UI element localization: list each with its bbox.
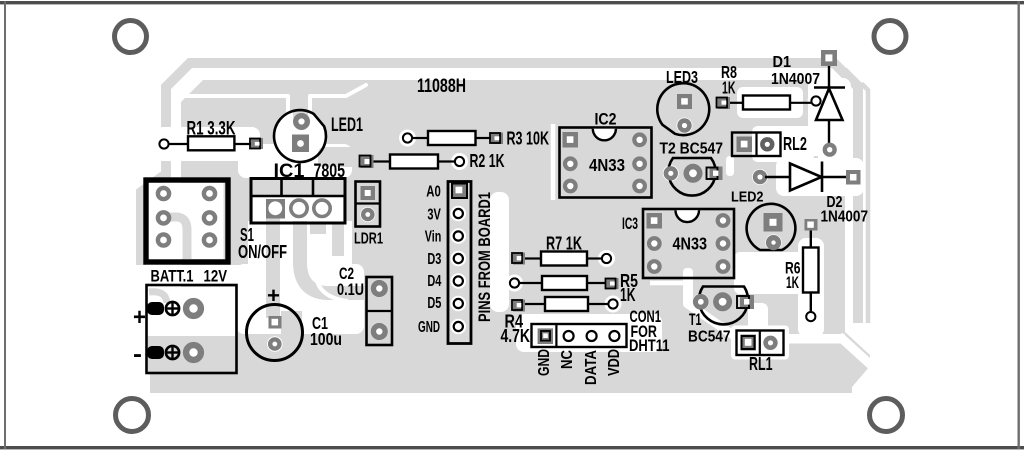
svg-text:RL1: RL1 bbox=[749, 354, 773, 374]
white region around CON1 bbox=[516, 314, 662, 352]
white band around D1 symbol bbox=[808, 78, 851, 156]
switch S1 bbox=[146, 180, 228, 262]
mounting hole bottom-right bbox=[870, 399, 903, 432]
trace down right of C1 bbox=[281, 311, 302, 335]
white band right of header strip bbox=[490, 192, 509, 312]
white diagonal channel bottom-right corner bbox=[839, 336, 871, 365]
svg-text:1N4007: 1N4007 bbox=[771, 71, 820, 88]
relay connector RL1 bbox=[737, 331, 784, 356]
pour channel top-left horizontal bbox=[182, 85, 366, 120]
svg-text:RL2: RL2 bbox=[783, 134, 807, 154]
svg-text:T2 BC547: T2 BC547 bbox=[660, 141, 724, 158]
LED LED1 bbox=[274, 110, 326, 162]
svg-text:11088H: 11088H bbox=[417, 76, 466, 97]
optocoupler IC2 bbox=[560, 128, 652, 198]
resistor R8 bbox=[717, 96, 821, 110]
svg-text:-: - bbox=[133, 341, 142, 368]
svg-text:PINS FROM BOARD1: PINS FROM BOARD1 bbox=[476, 192, 494, 322]
relay connector RL2 bbox=[732, 133, 781, 157]
mounting hole top-left bbox=[115, 21, 147, 53]
svg-text:7805: 7805 bbox=[314, 161, 346, 182]
svg-text:IC2: IC2 bbox=[595, 111, 617, 129]
resistor R6 bbox=[803, 219, 819, 321]
svg-text:LED3: LED3 bbox=[666, 67, 698, 87]
white row for BATT label bbox=[143, 265, 240, 285]
svg-text:D4: D4 bbox=[427, 273, 441, 290]
svg-text:BATT.1: BATT.1 bbox=[151, 268, 194, 286]
svg-text:1K: 1K bbox=[786, 274, 799, 292]
svg-text:100u: 100u bbox=[310, 329, 342, 349]
white diagonal channel below T1 bbox=[688, 304, 736, 337]
resistor R1 bbox=[159, 136, 263, 150]
svg-text:4.7K: 4.7K bbox=[501, 326, 531, 346]
white horizontal channel right of RL1 bbox=[783, 334, 845, 344]
svg-text:4N33: 4N33 bbox=[589, 155, 625, 175]
svg-text:R1 3.3K: R1 3.3K bbox=[187, 119, 236, 140]
white channel below IC3 bbox=[650, 281, 686, 286]
diode D2 bbox=[755, 162, 860, 193]
svg-text:3V: 3V bbox=[427, 206, 441, 223]
white margin around RL1 bbox=[731, 326, 789, 360]
svg-text:DATA: DATA bbox=[583, 350, 600, 385]
svg-text:R3 10K: R3 10K bbox=[507, 129, 550, 149]
svg-text:D1: D1 bbox=[773, 54, 792, 71]
svg-text:IC3: IC3 bbox=[622, 215, 638, 233]
svg-text:+: + bbox=[133, 304, 146, 331]
svg-text:LDR1: LDR1 bbox=[354, 231, 383, 248]
svg-text:VDD: VDD bbox=[606, 349, 623, 376]
svg-text:1K: 1K bbox=[722, 78, 736, 98]
svg-text:A0: A0 bbox=[426, 183, 441, 200]
white clearance halos around via pads bbox=[267, 93, 825, 352]
optocoupler IC3 bbox=[643, 209, 734, 278]
svg-text:+: + bbox=[267, 283, 280, 308]
resistor R3 bbox=[403, 131, 503, 145]
outer trace left jog around S1 bbox=[141, 158, 166, 265]
trace into LED1 top pad bbox=[293, 80, 308, 118]
trace down to C2 top bbox=[300, 221, 367, 293]
svg-text:GND: GND bbox=[536, 349, 553, 376]
svg-text:0.1U: 0.1U bbox=[337, 281, 364, 299]
svg-text:4N33: 4N33 bbox=[673, 234, 708, 254]
resistor R2 bbox=[360, 155, 465, 169]
white column around R6 bbox=[798, 238, 824, 337]
pour channel top-right arc bbox=[806, 80, 840, 152]
LDR1 connector bbox=[356, 182, 381, 227]
svg-text:Vin: Vin bbox=[425, 228, 442, 245]
svg-text:ON/OFF: ON/OFF bbox=[238, 242, 287, 262]
white region right of T1 bbox=[748, 303, 768, 333]
svg-text:D5: D5 bbox=[427, 295, 441, 312]
second outer trace right side bbox=[846, 68, 868, 323]
diode D1 bbox=[814, 50, 845, 155]
trace inside S1 bbox=[163, 217, 187, 262]
svg-text:R7 1K: R7 1K bbox=[546, 234, 582, 254]
resistor R7 bbox=[512, 252, 611, 266]
white interior LED1 bbox=[275, 111, 325, 161]
mounting hole top-right bbox=[874, 21, 906, 53]
header strip PINS FROM BOARD1 bbox=[448, 182, 471, 344]
trace stubs below IC1 bbox=[310, 222, 326, 234]
resistor R5 bbox=[510, 276, 619, 290]
white split in top-right corner trace bbox=[839, 58, 863, 82]
svg-text:NC: NC bbox=[559, 350, 576, 369]
white channel left of IC2 bbox=[551, 124, 556, 200]
pour white region around IC1 label bbox=[238, 144, 352, 178]
white band left of LED2 bbox=[818, 94, 845, 190]
white region BATT interior top bbox=[149, 287, 235, 336]
regulator IC1 7805 bbox=[251, 179, 345, 224]
resistor R4 bbox=[512, 297, 618, 312]
svg-text:R2 1K: R2 1K bbox=[470, 151, 505, 171]
trace down to C1 plus pad bbox=[266, 208, 280, 318]
white channel left of T1 bbox=[683, 268, 693, 308]
svg-text:T1: T1 bbox=[689, 311, 702, 329]
white region for R6 labels and below LED2 bbox=[734, 252, 806, 294]
svg-text:12V: 12V bbox=[204, 268, 228, 286]
mounting hole bottom-left bbox=[116, 399, 149, 432]
white region S1 interior bbox=[149, 183, 224, 259]
copper pour main fill bbox=[150, 80, 870, 393]
gray band inside BATT bottom bbox=[148, 336, 235, 372]
svg-text:IC1: IC1 bbox=[274, 161, 305, 182]
trace inside BATT corner bbox=[149, 292, 167, 303]
white band around R8 bbox=[737, 87, 803, 118]
svg-text:1N4007: 1N4007 bbox=[821, 209, 869, 226]
copper pour outer boundary trace bbox=[166, 63, 858, 323]
connector CON1 bbox=[532, 324, 627, 347]
transistor T1 bbox=[695, 287, 754, 325]
svg-text:1K: 1K bbox=[620, 285, 636, 305]
LED LED2 bbox=[747, 204, 796, 250]
battery connector BATT.1 bbox=[147, 285, 237, 373]
white region below IC1 bbox=[248, 221, 352, 264]
white region right part of RL2 bbox=[752, 126, 814, 162]
svg-text:LED2: LED2 bbox=[731, 189, 764, 206]
svg-text:DHT11: DHT11 bbox=[629, 337, 670, 355]
white region IC1 interior bbox=[253, 197, 343, 221]
page border frame bbox=[0, 1, 1024, 4]
capacitor C1 bbox=[247, 305, 303, 361]
white region around C1 C2 bbox=[236, 264, 364, 334]
svg-text:BC547: BC547 bbox=[688, 329, 731, 346]
transistor T2 bbox=[666, 158, 723, 196]
svg-text:D3: D3 bbox=[427, 251, 441, 268]
white channel between T2 and RL2 bbox=[726, 156, 734, 176]
svg-text:GND: GND bbox=[418, 319, 440, 336]
capacitor C2 connector bbox=[367, 277, 393, 345]
trace LED1 to R2 pad bbox=[318, 147, 368, 167]
LED LED3 bbox=[657, 83, 709, 135]
svg-text:LED1: LED1 bbox=[331, 115, 363, 136]
white band around D2 bbox=[776, 158, 864, 196]
pour white region around R1 bbox=[155, 127, 260, 161]
